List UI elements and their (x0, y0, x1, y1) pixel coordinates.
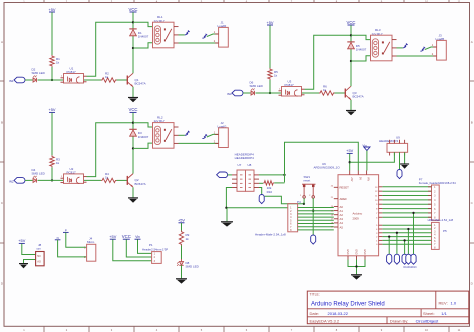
svg-text:GND: GND (354, 249, 357, 255)
junction (407, 228, 409, 230)
port RESET (to header U7/U8) (217, 172, 228, 178)
ground (D8) (176, 278, 187, 280)
wire U6 pin to P7 pin 5 (382, 203, 431, 205)
net flag (down) reset (311, 235, 316, 244)
svg-text:CircuitDigest: CircuitDigest (416, 319, 440, 324)
svg-text:TITLE:: TITLE: (310, 293, 320, 297)
svg-text:P: P (65, 228, 67, 232)
diode D1 1N4007 flyback (129, 28, 136, 30)
ground (128, 197, 138, 199)
wire (138, 239, 152, 253)
svg-text:Vin: Vin (135, 235, 140, 239)
wire U6 pin to P7 pin 8 (382, 216, 431, 218)
relay channel RL3 (227, 20, 446, 116)
svg-text:B: B (471, 121, 473, 125)
wire U6 pin to P7 pin 1 (382, 186, 431, 188)
wire (113, 239, 152, 260)
wire P4 pin 3 (298, 213, 334, 215)
wire U6 pin to P5 pin 4 (382, 236, 431, 238)
svg-text:2009: 2009 (353, 217, 360, 221)
relay channel RL1 (9, 7, 228, 103)
wire U6 pin to P7 pin 2 (382, 190, 431, 192)
junction (350, 34, 352, 36)
wire U6 pin to P5 pin 3 (382, 232, 431, 234)
svg-text:GND: GND (363, 249, 366, 255)
resistor R3 1k (50, 155, 54, 167)
wire U6 pin to P7 pin 3 (382, 195, 431, 197)
junction (355, 265, 357, 267)
svg-text:1.0: 1.0 (451, 301, 457, 306)
wire P4 pin 1 (298, 207, 334, 209)
junction (312, 210, 314, 212)
junction (269, 92, 271, 94)
net flag (down) (387, 254, 392, 264)
svg-text:A: A (1, 40, 3, 44)
svg-text:A5: A5 (340, 225, 344, 229)
LED D8 SMD LED (179, 262, 183, 266)
wire collector (132, 148, 134, 173)
wire emitter to ground (132, 187, 134, 197)
svg-text:Micro: Micro (87, 240, 95, 244)
svg-text:1k: 1k (105, 175, 109, 179)
svg-text:Arduino Relay Driver Shield: Arduino Relay Driver Shield (311, 302, 385, 308)
wire digital pin tap (413, 213, 415, 255)
wire VCC rail (132, 123, 134, 149)
svg-text:RESET: RESET (340, 186, 350, 190)
svg-text:J8: J8 (38, 243, 42, 247)
wire to J1 pin 2 (179, 42, 219, 44)
wire relay COM (397, 47, 403, 49)
resistor R4 1k (101, 178, 117, 182)
svg-text:VIN: VIN (367, 177, 370, 181)
wire (58, 240, 87, 257)
wire VCC rail (350, 35, 352, 61)
wire P4 pin 5 (298, 219, 334, 221)
svg-text:BC547A: BC547A (353, 94, 364, 98)
wire SW1 pin2 down to flag (312, 198, 314, 235)
svg-text:1k: 1k (56, 61, 60, 65)
wire SW1 pin1 down (303, 198, 305, 204)
wire U8 pin to reset net (259, 174, 285, 176)
svg-text:VCC: VCC (128, 7, 137, 12)
wire to J3 pin 2 (397, 55, 437, 57)
wire (349, 154, 351, 171)
wire U6 pin to P7 pin 4 (382, 199, 431, 201)
svg-text:GND: GND (346, 249, 349, 255)
wire U6 pin to P5 pin 2 (382, 228, 431, 230)
svg-text:5V: 5V (358, 177, 361, 180)
connector hook (403, 44, 408, 48)
resistor R1 1k (50, 55, 54, 67)
wire P4 pin 2 (298, 210, 334, 212)
resistor R9 1k (179, 231, 183, 246)
resistor R5 1k (268, 68, 272, 80)
svg-text:+5V: +5V (109, 234, 116, 239)
svg-text:+5V: +5V (266, 20, 273, 25)
wire emitter to ground (132, 87, 134, 97)
wire reset net to SW1 (265, 196, 304, 204)
wire +5V to U9 (350, 152, 395, 162)
wire P4 pin 4 (298, 216, 334, 218)
wire U7 pin to gnd rail (226, 188, 287, 208)
svg-text:Arduino: Arduino (353, 212, 363, 216)
svg-text:ARDUINO2009_1O: ARDUINO2009_1O (314, 166, 341, 170)
wire (228, 174, 232, 176)
junction (132, 147, 134, 149)
junction (396, 232, 398, 234)
svg-text:BC547A: BC547A (135, 182, 146, 186)
connector hook (420, 47, 425, 51)
net flag (down) (394, 254, 399, 264)
wire (126, 239, 151, 257)
wire digital pin tap (388, 237, 390, 255)
svg-text:R10: R10 (267, 190, 273, 194)
svg-text:reset: reset (304, 179, 311, 183)
ground (346, 110, 356, 112)
wire (366, 151, 368, 171)
wire (302, 92, 319, 94)
junction (132, 21, 134, 23)
wire opto collector loop (87, 123, 134, 177)
svg-text:EasyEDA V5.3.2: EasyEDA V5.3.2 (310, 319, 340, 324)
svg-text:1k: 1k (105, 75, 109, 79)
wire U6 pin to P5 pin 5 (382, 239, 431, 241)
svg-text:2018-03-22: 2018-03-22 (328, 311, 349, 316)
net flag (down) (259, 195, 264, 204)
svg-text:Drawn By:: Drawn By: (390, 319, 408, 324)
wire to J2 pin 1 (207, 134, 219, 137)
connector hook (202, 134, 207, 138)
svg-text:+5V: +5V (18, 238, 25, 243)
svg-text:D11D12D13: D11D12D13 (404, 266, 418, 269)
wire P4 pin 8 (298, 229, 334, 231)
resistor R6 1k (319, 91, 335, 95)
svg-text:N: N (57, 236, 59, 240)
wire relay COM (179, 134, 185, 136)
ground (128, 97, 138, 99)
svg-text:+5V: +5V (350, 177, 353, 182)
ground (19, 263, 28, 265)
wire (22, 244, 36, 255)
wire to relay coil (351, 35, 371, 39)
transistor Q1 BC547A (126, 76, 128, 85)
svg-text:VCC: VCC (122, 234, 131, 239)
connector hook (185, 131, 190, 135)
wire to relay coil (133, 123, 153, 127)
svg-text:A: A (471, 40, 473, 44)
svg-text:SMD LED: SMD LED (32, 71, 46, 75)
svg-text:+5V: +5V (178, 218, 185, 223)
wire (84, 79, 101, 81)
wire to J1 pin 1 (207, 34, 219, 37)
junction (225, 207, 227, 209)
connector hook (185, 31, 190, 35)
wire reset pullup riser (285, 142, 359, 182)
wire opto collector loop (87, 22, 134, 76)
svg-text:Date:: Date: (310, 311, 320, 316)
svg-text:1N4007: 1N4007 (138, 34, 149, 38)
svg-text:1N4007: 1N4007 (138, 135, 149, 139)
wire U6 pin to P7 pin 7 (382, 212, 431, 214)
svg-text:1k: 1k (323, 88, 327, 92)
svg-text:P5: P5 (443, 229, 447, 233)
ground (400, 163, 409, 165)
svg-text:HDR-Male-2.54_1x8: HDR-Male-2.54_1x8 (428, 218, 454, 222)
svg-text:+5V: +5V (48, 7, 55, 12)
wire to relay coil (133, 22, 153, 26)
svg-text:AREF: AREF (340, 197, 348, 201)
wire (181, 246, 183, 260)
wire collector (132, 48, 134, 73)
svg-text:P1: P1 (149, 243, 153, 247)
wire to J2 pin 2 (179, 142, 219, 144)
wire relay COM (179, 34, 185, 36)
junction (349, 161, 351, 163)
title block (307, 291, 469, 324)
svg-text:U7: U7 (238, 163, 242, 167)
svg-text:1k: 1k (56, 161, 60, 165)
wire U9 to down flag (399, 152, 401, 170)
wire emitter to ground (350, 100, 352, 110)
svg-text:con: con (37, 248, 42, 251)
svg-text:Sheet:: Sheet: (423, 311, 435, 316)
diode D3 1N4007 flyback (129, 128, 136, 130)
connector hook (202, 34, 207, 38)
svg-text:SMD LED: SMD LED (250, 84, 264, 88)
svg-text:+5V: +5V (48, 107, 55, 112)
svg-text:HEADERDIP4: HEADERDIP4 (379, 139, 399, 143)
wire P4 pin 7 (298, 226, 334, 228)
wire VCC rail (132, 22, 134, 48)
wire U6 pin to P5 pin 1 (382, 224, 431, 226)
wire digital pin tap (404, 240, 406, 254)
resistor R2 1k (101, 78, 117, 82)
svg-text:+5V: +5V (346, 148, 353, 153)
net flag (down) (402, 254, 407, 264)
junction (132, 122, 134, 124)
svg-text:Header-Male-2.54_1x8: Header-Male-2.54_1x8 (255, 233, 286, 237)
junction (350, 60, 352, 62)
svg-text:1k: 1k (274, 74, 278, 78)
svg-text:SMD LED: SMD LED (32, 172, 46, 176)
wire (181, 223, 183, 231)
wire (181, 265, 183, 278)
relay channel RL2 (9, 107, 228, 203)
wire U6 pin to P5 pin 6 (382, 243, 431, 245)
svg-text:1/1: 1/1 (441, 311, 447, 316)
svg-text:HEADERDIP4: HEADERDIP4 (235, 156, 255, 160)
transistor Q2 BC547A (126, 176, 128, 185)
wire J8 pin2 to ground (24, 260, 36, 264)
junction (283, 174, 285, 176)
wire digital pin tap (407, 229, 409, 255)
net flag (down) (397, 170, 402, 179)
svg-text:IN3: IN3 (227, 92, 232, 96)
wire (84, 179, 101, 181)
net flag (down) (411, 254, 416, 264)
ground (U6) (351, 274, 362, 276)
svg-text:1k: 1k (186, 237, 190, 241)
svg-text:B: B (1, 121, 3, 125)
junction (388, 235, 390, 237)
transistor Q3 BC547A (344, 89, 346, 98)
svg-text:REV:: REV: (439, 301, 448, 306)
wire U9 to ground (404, 152, 406, 163)
svg-text:VCC: VCC (346, 20, 355, 25)
svg-text:5O: 5O (37, 254, 40, 258)
wire (66, 232, 87, 247)
resistor R10 10k (259, 182, 263, 184)
wire to J3 pin 1 (425, 47, 437, 50)
svg-text:SMD LED: SMD LED (186, 265, 200, 269)
svg-text:IN1: IN1 (9, 79, 14, 83)
junction (303, 203, 305, 205)
wire collector (350, 61, 352, 86)
wire opto collector loop (305, 35, 352, 89)
diode D5 1N4007 flyback (347, 41, 354, 43)
net flag (down) (406, 254, 411, 264)
svg-text:1N4007: 1N4007 (356, 47, 367, 51)
wire U6 GND pins (348, 260, 365, 267)
junction (412, 212, 414, 214)
wire U6 pin to P7 pin 6 (382, 208, 431, 210)
junction (51, 179, 53, 181)
svg-text:Header2.54mm 1*3P: Header2.54mm 1*3P (142, 248, 168, 252)
ground (gnd rail) (226, 208, 228, 222)
svg-text:BC547A: BC547A (135, 81, 146, 85)
wire U8 pin to down flag (259, 188, 262, 195)
wire P4 pin 6 (298, 223, 334, 225)
svg-text:VCC: VCC (128, 107, 137, 112)
junction (51, 79, 53, 81)
junction (132, 47, 134, 49)
wire digital pin tap (396, 233, 398, 255)
svg-text:AO: AO (37, 259, 41, 263)
junction (403, 239, 405, 241)
svg-text:IN2: IN2 (9, 180, 14, 184)
svg-text:U8: U8 (248, 163, 252, 167)
